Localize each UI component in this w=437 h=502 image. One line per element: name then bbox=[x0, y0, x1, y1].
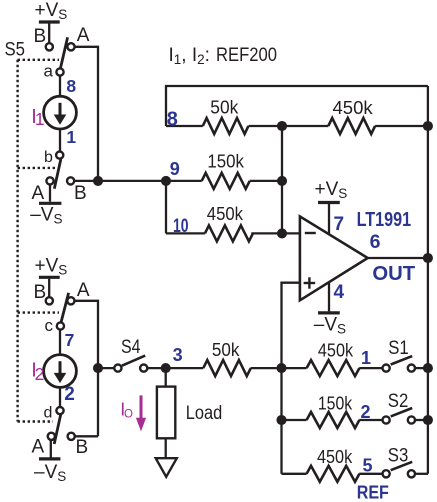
svg-text:150k: 150k bbox=[207, 151, 244, 172]
junction S2 at right rail bbox=[423, 415, 433, 425]
+VS bar op-amp pin 7 bbox=[318, 203, 340, 235]
junction node 3 bbox=[161, 363, 171, 373]
wire 450k to right rail bbox=[375, 125, 428, 127]
plus input wire to bottom rail bbox=[282, 283, 300, 368]
svg-text:2: 2 bbox=[35, 364, 45, 384]
svg-text:B: B bbox=[76, 437, 89, 458]
switch S2 right contact bbox=[408, 416, 415, 423]
+VS supply bar bottom-left bbox=[39, 277, 60, 297]
svg-text:2: 2 bbox=[361, 402, 371, 422]
resistor 450k feedback bbox=[328, 118, 375, 134]
S5 gang link to blade d bbox=[18, 420, 53, 422]
svg-text:a: a bbox=[44, 62, 54, 81]
svg-text:B: B bbox=[74, 183, 87, 204]
node b terminal bbox=[56, 152, 63, 159]
junction pin 8 row at minus rail bbox=[277, 121, 287, 131]
load resistor rectangle bbox=[157, 387, 175, 439]
svg-text:50k: 50k bbox=[210, 97, 239, 118]
wire S3 to rail bbox=[415, 473, 428, 475]
junction pin 10 row at minus rail bbox=[277, 228, 287, 238]
wire A1 to down vertical bbox=[74, 47, 98, 181]
terminal A bottom S5d bbox=[48, 433, 55, 440]
mid rail (minus node) bbox=[281, 126, 283, 233]
resistor 450k row3 bbox=[307, 466, 360, 482]
svg-text:7: 7 bbox=[334, 214, 345, 235]
S5 gang linkage dotted vertical bbox=[16, 60, 18, 422]
wire I2 to d bbox=[59, 388, 61, 408]
svg-text:A: A bbox=[32, 437, 45, 458]
resistor 50k bottom bbox=[203, 360, 250, 376]
output wire pin 6 bbox=[368, 257, 428, 259]
svg-text:S2: S2 bbox=[388, 391, 409, 412]
svg-text:b: b bbox=[44, 149, 53, 166]
pin8 row left wire bbox=[166, 125, 203, 127]
resistor 450k row1 bbox=[307, 360, 360, 376]
S5 gang link to blade a bbox=[18, 59, 59, 61]
-VS bar bottom section bbox=[39, 457, 60, 460]
svg-text:LT1991: LT1991 bbox=[357, 208, 412, 231]
terminal B bottom S5b bbox=[67, 177, 74, 184]
switch S4 blade bbox=[122, 356, 145, 366]
svg-text:2: 2 bbox=[64, 384, 75, 405]
junction feedback 450k at right rail bbox=[423, 121, 433, 131]
wire 450k pin10 to op-amp minus bbox=[251, 232, 300, 234]
svg-text:450k: 450k bbox=[318, 340, 354, 361]
wire B2 to 150k (pin 9 row) bbox=[74, 180, 202, 182]
svg-text:d: d bbox=[44, 405, 53, 422]
junction I2 output to S4 bbox=[93, 363, 103, 373]
terminal A top S5c bbox=[67, 297, 74, 304]
ground symbol bbox=[156, 458, 177, 477]
row1 wire left bbox=[282, 367, 307, 369]
svg-text:1: 1 bbox=[35, 109, 45, 129]
+VS supply bar top-left bbox=[39, 22, 60, 43]
resistor 150k row2 bbox=[307, 412, 360, 428]
terminal B top S5a bbox=[46, 43, 53, 50]
current source I2 bbox=[44, 355, 77, 388]
svg-text:450k: 450k bbox=[333, 97, 374, 118]
svg-text:S4: S4 bbox=[121, 337, 141, 358]
switch S5a blade bbox=[60, 37, 67, 69]
terminal A bottom S5b bbox=[46, 177, 53, 184]
resistor 150k pin9 bbox=[202, 173, 250, 189]
right rail bbox=[427, 86, 429, 474]
wire 150k to mid rail bbox=[250, 180, 282, 182]
svg-text:OUT: OUT bbox=[372, 262, 415, 285]
junction OUT at right rail bbox=[423, 253, 433, 263]
svg-text:S5: S5 bbox=[5, 40, 26, 61]
svg-text:1: 1 bbox=[66, 127, 76, 147]
terminal A top S5a bbox=[67, 43, 74, 50]
junction pin 9 row at minus rail bbox=[277, 176, 287, 186]
wire S1 to rail bbox=[415, 367, 428, 369]
wire I1 to b bbox=[59, 129, 61, 152]
wire S2 to rail bbox=[415, 419, 428, 421]
row2 wire left bbox=[282, 419, 307, 421]
node d terminal bbox=[56, 407, 63, 414]
wire S4 to node 3 and 50k bbox=[147, 367, 203, 369]
svg-text:50k: 50k bbox=[212, 339, 240, 360]
S5 gang link to blade c bbox=[18, 311, 59, 313]
junction pin 9 row at left vertical bbox=[161, 176, 171, 186]
wire 50k to bottom rail bbox=[251, 367, 282, 369]
svg-text:REF: REF bbox=[357, 483, 389, 502]
svg-text:4: 4 bbox=[334, 282, 345, 303]
svg-text:450k: 450k bbox=[207, 203, 244, 224]
switch S3 left contact bbox=[383, 470, 390, 477]
svg-text:8: 8 bbox=[66, 76, 76, 96]
terminal B top S5c bbox=[46, 297, 53, 304]
junction row2 at plus rail bbox=[276, 415, 286, 425]
junction S1 at right rail bbox=[423, 363, 433, 373]
svg-text:c: c bbox=[45, 316, 54, 335]
wire row2 to S2 bbox=[359, 419, 383, 421]
wire B5 right to vertical bbox=[75, 435, 98, 437]
junction row1 at plus rail bbox=[276, 363, 286, 373]
op-amp plus symbol bbox=[304, 277, 316, 288]
switch S3 blade bbox=[391, 462, 413, 470]
bottom rail (plus node) bbox=[280, 368, 282, 474]
resistor 450k pin10 bbox=[205, 225, 253, 241]
wire load to ground bbox=[165, 438, 167, 458]
svg-text:A: A bbox=[32, 183, 45, 204]
svg-text:B: B bbox=[34, 282, 47, 303]
svg-text:1: 1 bbox=[361, 348, 371, 368]
switch S5c blade bbox=[61, 293, 69, 323]
op-amp minus symbol bbox=[305, 232, 316, 234]
terminal B bottom S5d bbox=[68, 433, 75, 440]
switch S1 right contact bbox=[408, 365, 415, 372]
node a terminal bbox=[56, 68, 63, 75]
switch S5b blade bbox=[54, 159, 61, 188]
svg-text:A: A bbox=[77, 25, 90, 46]
row3 wire left bbox=[282, 473, 307, 475]
switch S5d blade bbox=[54, 415, 61, 444]
switch S2 left contact bbox=[383, 416, 390, 423]
wire node3 to load bbox=[165, 368, 167, 387]
svg-text:9: 9 bbox=[170, 159, 180, 179]
switch S1 blade bbox=[391, 356, 413, 364]
IO arrow bbox=[136, 395, 146, 431]
svg-text:A: A bbox=[77, 280, 90, 301]
svg-text:5: 5 bbox=[363, 456, 373, 476]
svg-text:3: 3 bbox=[173, 345, 183, 365]
svg-text:6: 6 bbox=[370, 231, 381, 253]
svg-text:Load: Load bbox=[186, 403, 223, 424]
switch S1 left contact bbox=[383, 365, 390, 372]
S5 gang link to blade b bbox=[18, 167, 56, 169]
svg-text:10: 10 bbox=[173, 216, 189, 237]
switch S4 left contact bbox=[114, 365, 121, 372]
wire c to I2 bbox=[59, 330, 61, 355]
-VS bar op-amp pin 4 bbox=[318, 282, 340, 313]
-VS bar top section bbox=[39, 202, 61, 205]
svg-text:7: 7 bbox=[65, 330, 75, 350]
svg-text:450k: 450k bbox=[317, 446, 353, 467]
svg-text:S3: S3 bbox=[388, 446, 409, 467]
svg-text:REF200: REF200 bbox=[216, 45, 277, 66]
wire a to I1 bbox=[59, 75, 61, 96]
wire A4 down to S4 junction bbox=[74, 301, 98, 437]
svg-text:O: O bbox=[124, 408, 133, 420]
wire row1 to S1 bbox=[359, 367, 383, 369]
resistor 50k pin8 bbox=[203, 118, 249, 134]
svg-text:S1: S1 bbox=[388, 338, 409, 359]
node c terminal bbox=[57, 322, 64, 329]
svg-text:8: 8 bbox=[167, 108, 178, 130]
wire A2 to -VS bbox=[49, 184, 51, 201]
svg-text:150k: 150k bbox=[318, 392, 353, 413]
top box wire bbox=[166, 86, 428, 126]
svg-text:B: B bbox=[34, 26, 47, 47]
switch S3 right contact bbox=[408, 470, 415, 477]
current source I1 bbox=[44, 96, 77, 129]
switch S2 blade bbox=[391, 408, 413, 416]
op-amp LT1991 triangle bbox=[300, 216, 368, 300]
wire A5 to -VS bbox=[50, 440, 52, 458]
wire pin9 to pin10 left vertical bbox=[165, 181, 167, 234]
pin10 row wire bbox=[166, 232, 205, 234]
wire 50k to 450k bbox=[249, 125, 329, 127]
wire junction to S4 bbox=[98, 367, 115, 369]
junction I1 output to pin 9 row bbox=[93, 176, 103, 186]
wire row3 to S3 bbox=[359, 473, 383, 475]
switch S4 right contact bbox=[140, 365, 147, 372]
